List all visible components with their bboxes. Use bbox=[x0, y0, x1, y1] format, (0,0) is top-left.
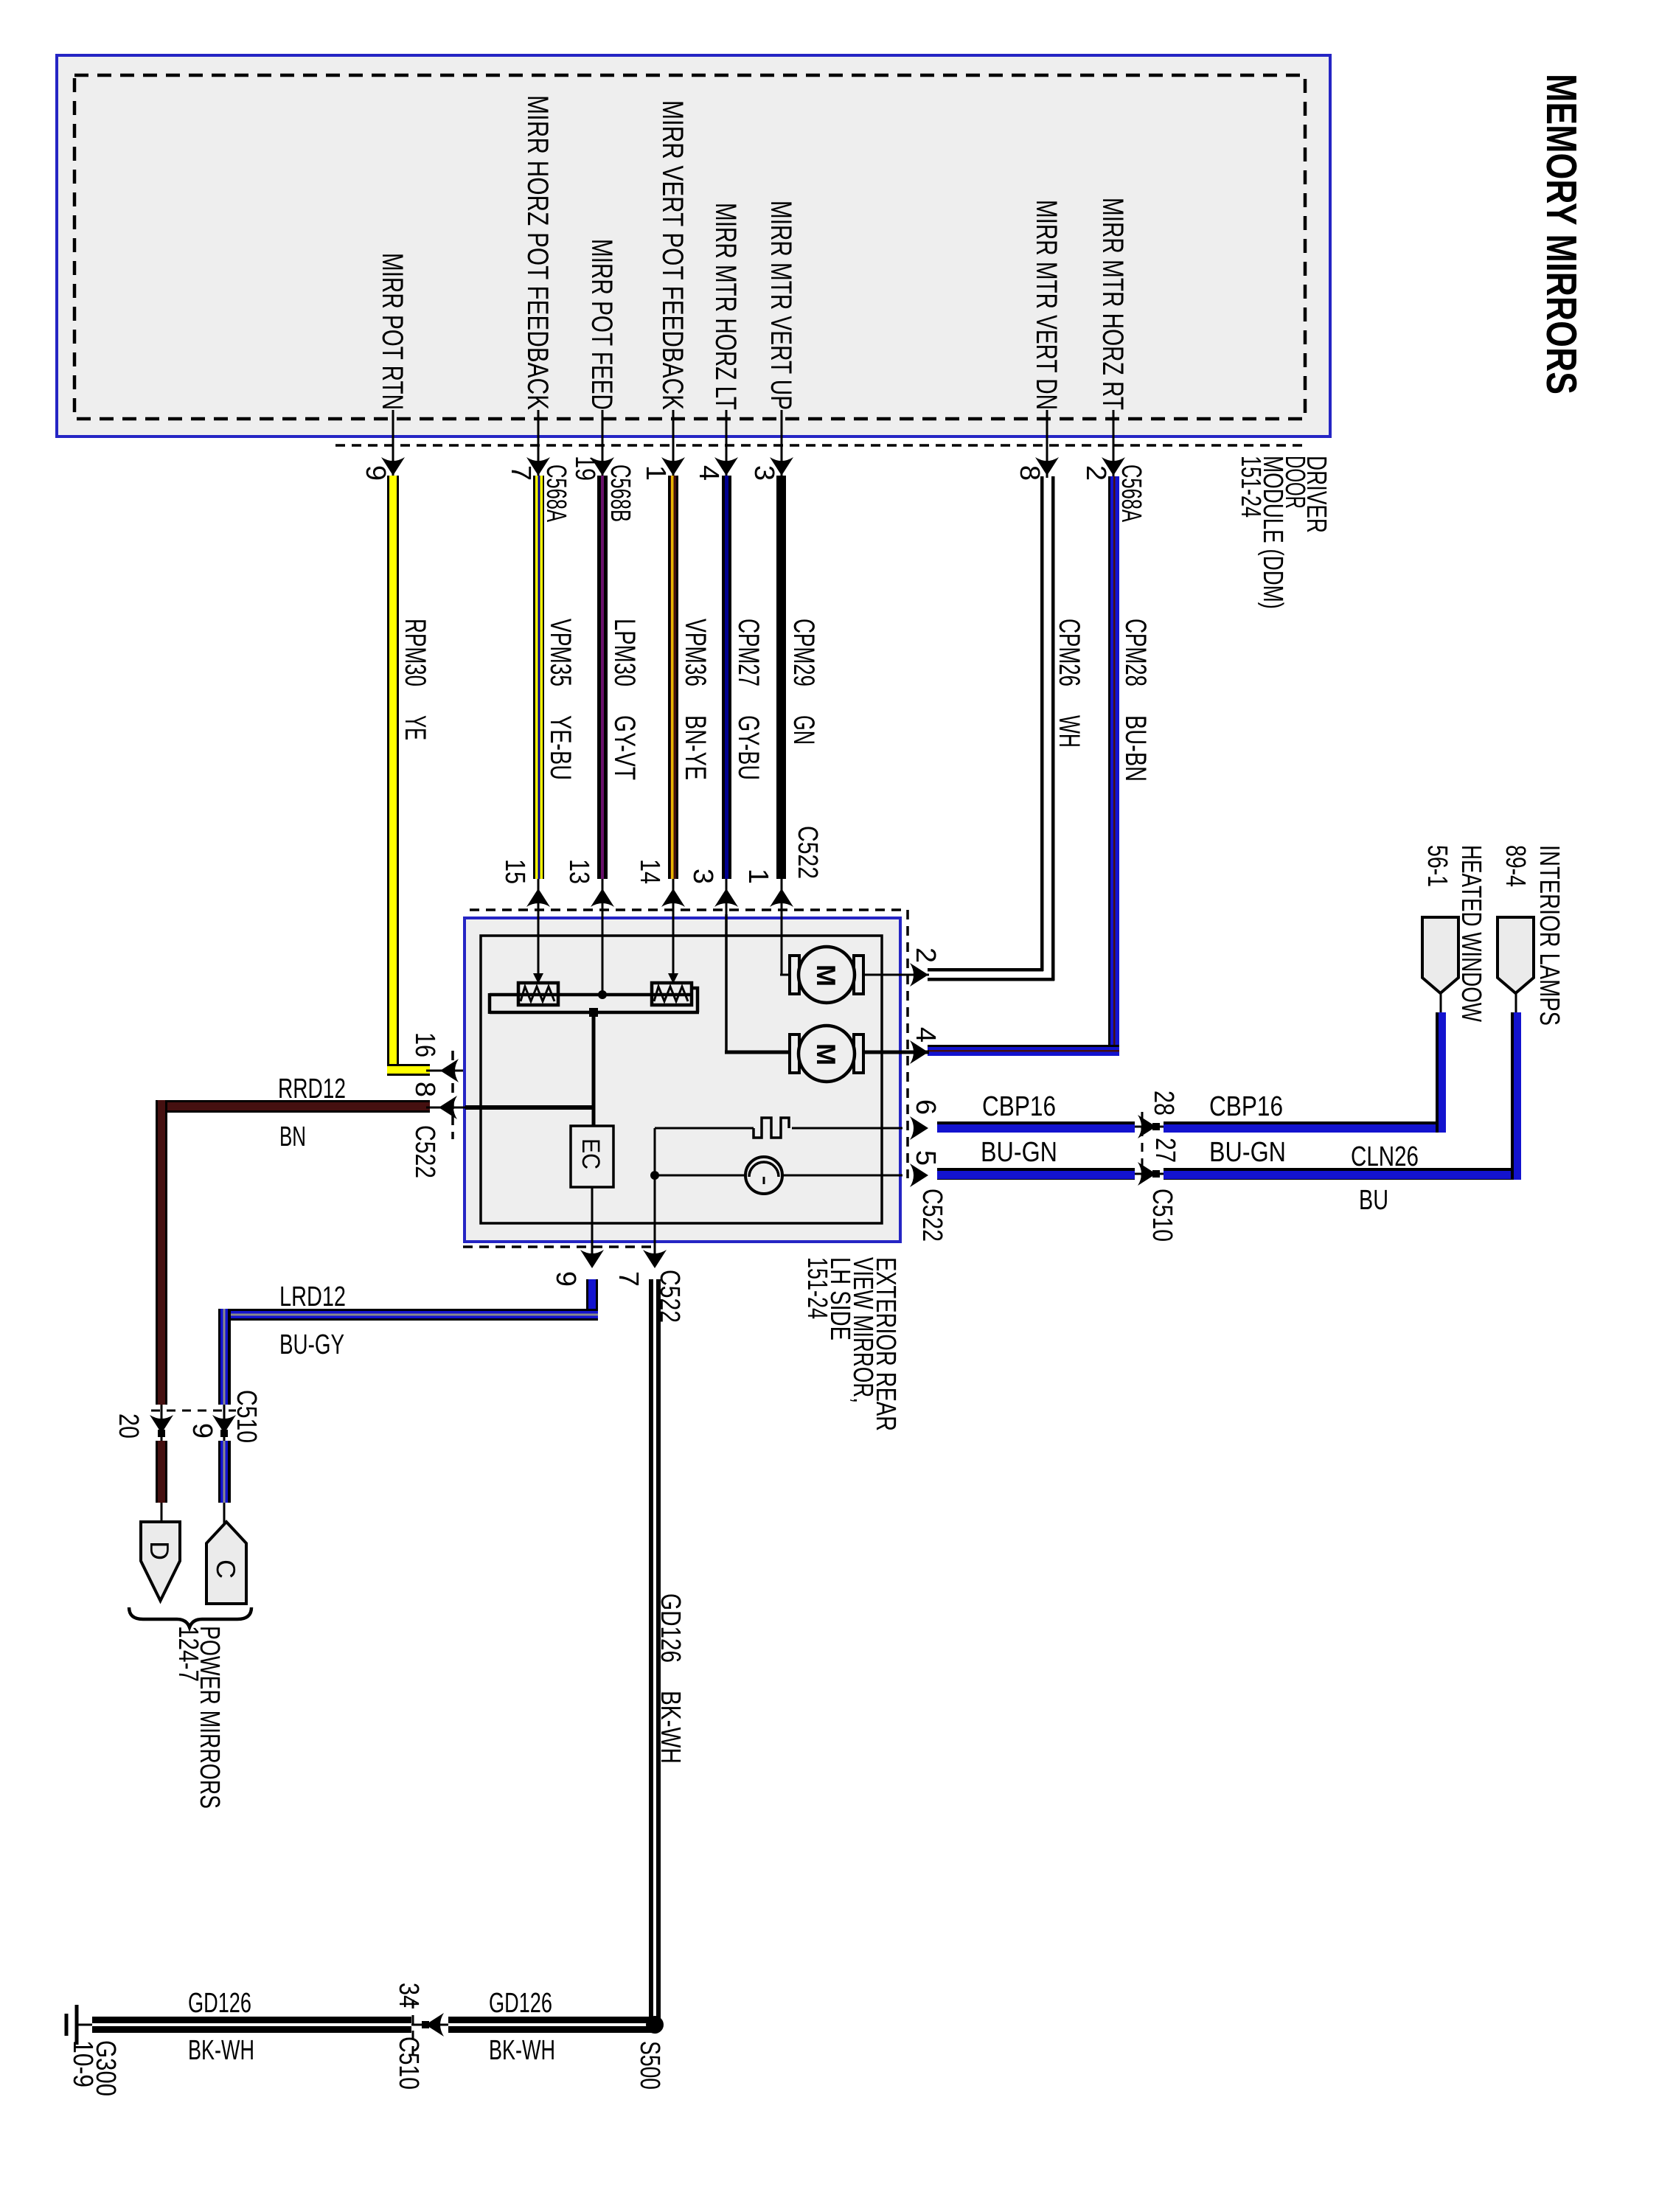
svg-text:28: 28 bbox=[1148, 1091, 1179, 1116]
svg-text:M: M bbox=[811, 1043, 841, 1065]
wire CBP16 BU-GN (right segment) bbox=[1164, 1121, 1446, 1133]
wire CLN26 riser to interior lamps bbox=[1511, 1012, 1521, 1180]
DDM pin 9 lead / signal MIRR POT RTN bbox=[360, 253, 408, 481]
wire CPM29 label bbox=[787, 619, 820, 745]
wire pin14 to pot wiper bbox=[672, 914, 675, 978]
svg-text:BU-GY: BU-GY bbox=[279, 1329, 344, 1360]
svg-text:GD126: GD126 bbox=[489, 1988, 552, 2019]
wire pin13 to pot bus bbox=[602, 914, 604, 995]
connector C522 dashed boundary (right) bbox=[906, 910, 909, 1178]
pot2 right terminal wire bbox=[690, 988, 698, 1012]
svg-text:YE-BU: YE-BU bbox=[544, 715, 577, 780]
mirror pin 16 entry at C522 (left) bbox=[409, 1032, 459, 1082]
label block INTERIOR LAMPS 89-4 bbox=[1500, 845, 1565, 1026]
DDM pin 3 lead / signal MIRR MTR VERT UP bbox=[748, 201, 797, 481]
svg-text:5: 5 bbox=[910, 1150, 941, 1166]
svg-text:BN-YE: BN-YE bbox=[679, 715, 712, 780]
wire RRD12 BN (vertical) bbox=[156, 1100, 167, 1405]
svg-text:MIRR POT FEED: MIRR POT FEED bbox=[585, 239, 618, 410]
svg-text:MIRR HORZ POT FEEDBACK: MIRR HORZ POT FEEDBACK bbox=[521, 95, 554, 410]
mirror pin 13 entry at C522 (top) bbox=[563, 859, 614, 914]
svg-text:C568A: C568A bbox=[540, 465, 571, 522]
svg-text:CPM28: CPM28 bbox=[1119, 619, 1152, 686]
wire fuse node down to lamp node bbox=[654, 1128, 656, 1175]
svg-text:151-24: 151-24 bbox=[801, 1257, 832, 1319]
svg-text:MIRR MTR HORZ RT: MIRR MTR HORZ RT bbox=[1096, 198, 1129, 410]
svg-text:VPM36: VPM36 bbox=[679, 619, 712, 686]
svg-text:LPM30: LPM30 bbox=[608, 619, 641, 686]
label block POWER MIRRORS 124-7 bbox=[173, 1626, 225, 1809]
DDM pin 2 lead / signal MIRR MTR HORZ RT bbox=[1080, 198, 1147, 522]
connector C522 dashed boundary (top) bbox=[470, 908, 908, 911]
wire fuse to C522 pin 6 bbox=[792, 1127, 902, 1130]
svg-text:BK-WH: BK-WH bbox=[188, 2035, 254, 2066]
svg-text:15: 15 bbox=[499, 859, 530, 884]
svg-text:2: 2 bbox=[910, 947, 941, 963]
svg-text:CPM27: CPM27 bbox=[732, 619, 765, 686]
wire CPM28 BU-BN (elbow to mirror pin 4) bbox=[928, 1045, 1119, 1056]
wire lamp left lead bbox=[655, 1175, 746, 1177]
DDM pin 8 lead / signal MIRR MTR VERT DN bbox=[1014, 200, 1062, 481]
svg-text:C568B: C568B bbox=[605, 465, 636, 522]
C510 pin 28 arrow bbox=[1135, 1091, 1179, 1138]
wire RRD12 to connector D bbox=[161, 1503, 163, 1523]
svg-text:INTERIOR LAMPS: INTERIOR LAMPS bbox=[1534, 845, 1565, 1026]
connector C568 dashed boundary line bbox=[335, 444, 1307, 447]
module box: Driver Door Module (DDM) bbox=[57, 55, 1330, 437]
svg-text:151-24: 151-24 bbox=[1235, 456, 1266, 518]
svg-text:MIRR MTR VERT UP: MIRR MTR VERT UP bbox=[765, 201, 797, 410]
svg-text:HEATED WINDOW: HEATED WINDOW bbox=[1455, 845, 1486, 1022]
junction square on lower bus bbox=[589, 1008, 598, 1017]
DDM pin 7 lead / signal MIRR HORZ POT FEEDBACK bbox=[505, 95, 571, 522]
svg-text:MIRR POT RTN: MIRR POT RTN bbox=[376, 253, 408, 410]
wire CBP16 riser to heated window bbox=[1436, 1012, 1446, 1133]
wire VPM36 BN-YE bbox=[668, 476, 678, 879]
wire motor M1 to pin 2 bbox=[863, 974, 929, 976]
svg-text:GD126: GD126 bbox=[188, 1988, 251, 2019]
mirror pin 3 entry at C522 (top) bbox=[687, 869, 738, 914]
svg-text:9: 9 bbox=[550, 1271, 581, 1287]
junction dot lamp node bbox=[650, 1171, 659, 1180]
svg-text:M: M bbox=[811, 964, 841, 987]
svg-text:BK-WH: BK-WH bbox=[489, 2035, 555, 2066]
wire CPM26 WH (white, double line vertical) bbox=[1040, 476, 1044, 971]
connector pentagon HEATED WINDOW bbox=[1422, 917, 1458, 993]
svg-text:16: 16 bbox=[409, 1032, 440, 1057]
pot bus left bracket wire bbox=[488, 993, 492, 1014]
svg-text:BU: BU bbox=[1359, 1185, 1388, 1216]
wire CLN26 BU (right segment) bbox=[1164, 1168, 1521, 1180]
wire pin 1 to motor M1 bbox=[781, 914, 783, 975]
wire pin 3 to motor M2 bbox=[725, 914, 728, 1052]
connector C522 dashed boundary (bottom) bbox=[463, 1245, 656, 1248]
svg-text:C510: C510 bbox=[231, 1390, 262, 1443]
svg-text:CPM26: CPM26 bbox=[1053, 619, 1085, 686]
mirror pin 1 entry at C522 (top) bbox=[742, 869, 793, 914]
svg-text:56-1: 56-1 bbox=[1422, 845, 1453, 887]
connector C510 dashed line (power mirror branch) bbox=[151, 1410, 236, 1412]
wire LRD12 BU-GY (vertical) bbox=[218, 1309, 231, 1405]
svg-text:7: 7 bbox=[613, 1271, 644, 1287]
wire CPM29 GN bbox=[776, 476, 786, 879]
C510 pin 20 arrow on RRD12 bbox=[113, 1405, 173, 1441]
svg-text:YE: YE bbox=[399, 715, 431, 740]
svg-text:EC: EC bbox=[577, 1138, 605, 1169]
svg-text:27: 27 bbox=[1150, 1138, 1180, 1163]
svg-text:7: 7 bbox=[505, 465, 536, 481]
wire heated window lead bbox=[1440, 993, 1442, 1012]
svg-text:RPM30: RPM30 bbox=[399, 619, 431, 686]
pot lower bus wire bbox=[490, 1011, 699, 1015]
wire LRD12 lower segment bbox=[218, 1441, 231, 1503]
brace grouping power mirrors bbox=[129, 1607, 251, 1627]
svg-text:8: 8 bbox=[409, 1082, 440, 1097]
svg-text:GY-BU: GY-BU bbox=[732, 715, 765, 780]
wire RPM30 YE (elbow to mirror pin 16) bbox=[387, 1064, 430, 1076]
wire LRD12 BU-GY (pin9 stub) bbox=[586, 1279, 598, 1321]
svg-text:CPM29: CPM29 bbox=[787, 619, 820, 686]
label block G300 10-9 bbox=[67, 2040, 121, 2096]
svg-text:C522: C522 bbox=[792, 826, 823, 879]
connector C522 dashed boundary (left) bbox=[451, 1051, 454, 1139]
mirror pin 5 exit at C522 (right) bbox=[910, 1150, 941, 1187]
svg-text:S500: S500 bbox=[634, 2041, 665, 2090]
svg-text:GD126: GD126 bbox=[655, 1593, 686, 1663]
svg-text:14: 14 bbox=[634, 859, 665, 884]
mirror pin 7 exit at C522 (bottom) bbox=[613, 1250, 667, 1287]
label block DRIVER DOOR MODULE (DDM) 151-24 bbox=[1235, 456, 1332, 609]
svg-text:13: 13 bbox=[563, 859, 594, 884]
svg-text:MEMORY MIRRORS: MEMORY MIRRORS bbox=[1537, 74, 1585, 394]
svg-text:GY-VT: GY-VT bbox=[608, 715, 641, 780]
wire CBP16 BU-GN (left segment) bbox=[937, 1121, 1135, 1133]
connector C pentagon bbox=[206, 1522, 246, 1604]
junction dot pot bus bbox=[598, 990, 607, 999]
mirror pin 9 exit at C522 (bottom) bbox=[550, 1250, 604, 1287]
mirror puddle lamp bbox=[745, 1157, 782, 1194]
svg-text:9: 9 bbox=[187, 1423, 218, 1439]
svg-text:C568A: C568A bbox=[1116, 465, 1147, 522]
wire CPM26 label bbox=[1053, 619, 1085, 748]
svg-text:124-7: 124-7 bbox=[173, 1626, 204, 1682]
label block EXTERIOR REAR VIEW MIRROR LH SIDE 151-24 bbox=[801, 1257, 901, 1431]
wire RRD12 lower segment bbox=[156, 1441, 167, 1503]
wire GD126 BK-WH (horizontal right segment) bbox=[448, 2017, 655, 2023]
svg-text:3: 3 bbox=[687, 869, 718, 884]
svg-text:CBP16: CBP16 bbox=[1209, 1091, 1283, 1122]
wire CPM28 BU-BN (vertical run) bbox=[1108, 476, 1119, 1056]
mirror pin 4 exit at C522 (right) bbox=[910, 1027, 941, 1064]
thermal fuse symbol bbox=[754, 1118, 789, 1138]
svg-text:4: 4 bbox=[693, 465, 724, 481]
svg-text:LRD12: LRD12 bbox=[279, 1281, 346, 1312]
svg-text:BK-WH: BK-WH bbox=[655, 1691, 686, 1764]
svg-text:6: 6 bbox=[910, 1099, 941, 1115]
wire CPM27 label bbox=[732, 619, 765, 780]
mirror inner case rectangle bbox=[481, 936, 882, 1223]
mirror pin 14 entry at C522 (top) bbox=[634, 859, 685, 914]
pot upper bus wire bbox=[490, 993, 693, 997]
wire pin5 stub BU-GN bbox=[937, 1168, 1135, 1180]
svg-text:C: C bbox=[211, 1559, 241, 1579]
wire RPM30 label bbox=[399, 619, 431, 740]
svg-text:BU-GN: BU-GN bbox=[1209, 1137, 1286, 1168]
svg-text:MIRR VERT POT FEEDBACK: MIRR VERT POT FEEDBACK bbox=[656, 100, 689, 410]
wire lamp to C522 pin 5 bbox=[782, 1175, 902, 1177]
component box: exterior rear view mirror LH bbox=[465, 918, 900, 1242]
svg-text:CBP16: CBP16 bbox=[982, 1091, 1056, 1122]
EC module box bbox=[571, 1126, 613, 1187]
svg-text:D: D bbox=[145, 1541, 175, 1560]
wire lamp node to pin 7 bbox=[654, 1175, 656, 1256]
C510 pin 34 arrow bbox=[393, 1983, 448, 2037]
DDM pin 1 lead / signal MIRR VERT POT FEEDBACK bbox=[640, 100, 689, 481]
wire pin 6 heater feed bbox=[655, 1127, 754, 1130]
wire RRD12 BN (horizontal) bbox=[156, 1100, 430, 1113]
svg-text:19: 19 bbox=[569, 456, 600, 481]
potentiometer (horizontal position) bbox=[518, 983, 558, 1005]
wire RPM30 YE (vertical run) bbox=[387, 476, 399, 1076]
C510 pin 9 arrow on LRD12 bbox=[187, 1405, 236, 1441]
wire VPM36 label bbox=[679, 619, 712, 780]
wire pin15 to pot wiper bbox=[538, 914, 540, 978]
wire CPM28 label bbox=[1119, 619, 1152, 782]
wire mirror pin 8 (internal) bbox=[465, 1105, 594, 1110]
svg-text:BU-BN: BU-BN bbox=[1119, 715, 1152, 782]
wire CPM27 GY-BU bbox=[722, 476, 731, 879]
wire RRD12 lead to mirror pin 8 bbox=[426, 1107, 465, 1109]
svg-text:GN: GN bbox=[787, 715, 820, 745]
wire CPM26 WH (elbow to mirror pin 2) bbox=[928, 968, 1043, 972]
connector D pentagon bbox=[141, 1522, 180, 1601]
mirror pin 8 entry at C522 (left) bbox=[409, 1082, 457, 1119]
wire motor M2 to pin 4 bbox=[863, 1051, 929, 1054]
svg-text:VPM35: VPM35 bbox=[544, 619, 577, 686]
svg-text:89-4: 89-4 bbox=[1500, 845, 1531, 887]
wire bus to EC and pin 8 bbox=[592, 1012, 596, 1126]
mirror pin 15 entry at C522 (top) bbox=[499, 859, 550, 914]
svg-text:BN: BN bbox=[279, 1121, 306, 1152]
svg-text:CLN26: CLN26 bbox=[1351, 1141, 1419, 1172]
mirror pin 6 exit at C522 (right) bbox=[910, 1099, 941, 1140]
svg-text:1: 1 bbox=[742, 869, 773, 884]
svg-text:RRD12: RRD12 bbox=[278, 1074, 346, 1105]
svg-text:1: 1 bbox=[640, 465, 671, 481]
ground symbol G300 bbox=[66, 2005, 92, 2045]
svg-text:MIRR MTR HORZ LT: MIRR MTR HORZ LT bbox=[709, 203, 742, 410]
svg-text:20: 20 bbox=[113, 1413, 144, 1439]
svg-text:4: 4 bbox=[910, 1027, 941, 1043]
wire LPM30 GY-VT bbox=[597, 476, 608, 879]
svg-text:3: 3 bbox=[748, 465, 779, 481]
DDM inner dashed border bbox=[74, 75, 1305, 419]
DDM pin 4 lead / signal MIRR MTR HORZ LT bbox=[693, 203, 742, 481]
wire VPM35 YE-BU bbox=[533, 476, 544, 879]
svg-text:C522: C522 bbox=[917, 1189, 947, 1242]
wire interior lamps lead bbox=[1515, 993, 1517, 1012]
svg-text:WH: WH bbox=[1053, 715, 1085, 748]
label block HEATED WINDOW 56-1 bbox=[1422, 845, 1486, 1022]
svg-text:C510: C510 bbox=[393, 2037, 424, 2090]
C510 pin 27 arrow bbox=[1135, 1138, 1180, 1186]
potentiometer (vertical position) bbox=[652, 983, 692, 1005]
svg-text:2: 2 bbox=[1080, 465, 1111, 481]
wire LRD12 BU-GY (horizontal) bbox=[218, 1309, 598, 1321]
wire LPM30 label bbox=[608, 619, 641, 780]
wire EC to pin 9 bbox=[591, 1187, 594, 1256]
connector C510 dashed (ground run) bbox=[412, 2000, 414, 2056]
svg-text:BU-GN: BU-GN bbox=[981, 1137, 1057, 1168]
wire LRD12 to connector C bbox=[223, 1503, 226, 1523]
wire VPM35 label bbox=[544, 619, 577, 780]
connector pentagon INTERIOR LAMPS bbox=[1498, 917, 1534, 993]
svg-text:C510: C510 bbox=[1147, 1189, 1178, 1242]
svg-text:C522: C522 bbox=[409, 1125, 440, 1178]
svg-text:9: 9 bbox=[360, 465, 391, 481]
svg-text:10-9: 10-9 bbox=[67, 2040, 98, 2087]
mirror pin 2 exit at C522 (right) bbox=[910, 947, 941, 987]
motor M1 (vertical) bbox=[790, 947, 863, 1003]
connector C510 dashed (door boundary) bbox=[1141, 1112, 1144, 1180]
DDM pin 19 lead / signal MIRR POT FEED bbox=[569, 239, 636, 522]
splice S500 bbox=[646, 2016, 664, 2034]
svg-text:34: 34 bbox=[393, 1983, 424, 2008]
svg-text:8: 8 bbox=[1014, 465, 1045, 481]
svg-text:MIRR MTR VERT DN: MIRR MTR VERT DN bbox=[1030, 200, 1062, 410]
wire GD126 BK-WH (vertical double line) bbox=[649, 1279, 653, 2025]
wire GD126 BK-WH (horizontal left segment) bbox=[92, 2017, 411, 2023]
motor M2 (horizontal) bbox=[790, 1026, 863, 1082]
